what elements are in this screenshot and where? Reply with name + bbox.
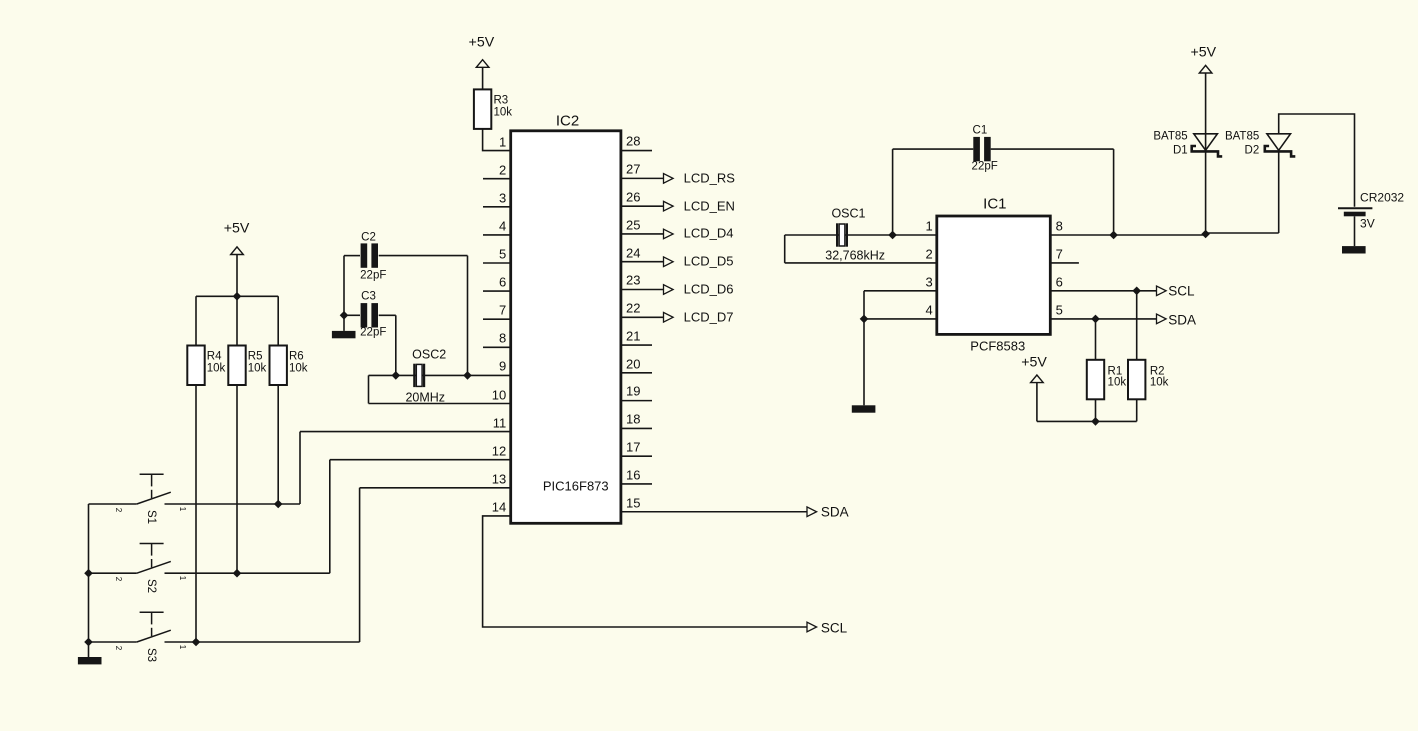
wire IC2 pin 17 stub — [621, 455, 652, 457]
pin number 14 IC2 — [492, 500, 506, 513]
arrow SCL IC1 — [1157, 286, 1167, 296]
junction C2-OSC2 — [463, 371, 472, 380]
resistor R6 — [270, 346, 287, 386]
pin number 24 IC2 — [626, 246, 640, 259]
net label SCL — [821, 621, 847, 635]
pin number 3 IC1 — [926, 275, 933, 288]
label D2 — [1245, 145, 1260, 157]
wire C1 left — [893, 148, 974, 150]
junction R1-SDA — [1091, 315, 1100, 324]
pin number 10 IC2 — [492, 388, 506, 401]
label +5V D1 — [1190, 45, 1216, 59]
pin number 23 IC2 — [626, 274, 640, 287]
pin number 3 IC2 — [499, 191, 506, 204]
wire OSC1 net pin 1 — [785, 234, 937, 236]
crystal OSC2 — [414, 364, 424, 387]
capacitor C1 — [973, 137, 990, 161]
wire IC2 pin 5 stub — [483, 262, 510, 264]
diode D2 BAT85 — [1265, 134, 1296, 157]
wire IC2 pin 21 stub — [621, 344, 652, 346]
junction +5V rail — [233, 292, 242, 301]
arrow pin 23 — [664, 285, 674, 295]
label +5V pullups — [1021, 355, 1047, 369]
pin number 21 IC2 — [626, 329, 640, 342]
label S1 — [144, 510, 156, 524]
wire pin 13 — [360, 487, 510, 489]
wire C1 right riser — [1113, 149, 1115, 235]
wire pin 5 SDA — [1050, 318, 1156, 320]
wire C3 riser to pin9 node — [395, 315, 397, 375]
wire C3 right to riser — [379, 314, 396, 316]
wire pin 4 — [864, 318, 937, 320]
net label SCL IC1 — [1168, 285, 1194, 299]
wire S2 riser to pin 12 — [329, 460, 331, 574]
label CR2032 — [1360, 191, 1404, 203]
capacitor C2 — [361, 243, 378, 267]
label C1 value — [972, 161, 998, 173]
net label LCD_D5 — [684, 254, 734, 267]
label +5V R4R6 — [224, 222, 250, 236]
arrow SCL — [807, 622, 817, 632]
wire +5V through R3 to IC2 pin 1 — [483, 67, 510, 150]
pin number 8 IC1 — [1056, 219, 1063, 232]
arrow pin 22 — [664, 312, 674, 322]
junction pin3-pin4-gnd — [860, 315, 869, 324]
wire IC1 pin 7 stub — [1050, 262, 1079, 264]
net label LCD_D6 — [684, 282, 734, 295]
wire +5V drop — [236, 255, 238, 297]
wire IC2 pin 20 stub — [621, 372, 652, 374]
wire IC2 pin 7 stub — [483, 318, 510, 320]
wire R5 column — [236, 296, 238, 573]
junction D1-pin8 — [1201, 230, 1210, 239]
wire pin 8 net right part — [1206, 232, 1279, 234]
resistor R1 — [1087, 360, 1104, 400]
wire IC2 pin 18 stub — [621, 427, 652, 429]
pin number 8 IC2 — [499, 332, 506, 345]
junction bus-S3 — [84, 638, 93, 647]
pin number 19 IC2 — [626, 385, 640, 398]
label R3 — [493, 95, 508, 107]
arrow pin 25 — [664, 229, 674, 239]
wire OSC2 net pin 9 — [369, 374, 511, 376]
power +5V above pullup rail — [1031, 375, 1044, 383]
junction C1-pin8 — [1109, 231, 1118, 240]
power +5V above D1 — [1199, 65, 1212, 73]
label OSC2 — [412, 348, 446, 361]
pin number 2 IC1 — [926, 247, 933, 260]
wire pin 8 net — [1050, 234, 1205, 236]
wire +5V pullup rail — [1037, 420, 1137, 422]
label battery 3V — [1360, 217, 1375, 229]
wire +5V to D1 — [1205, 73, 1207, 151]
label C2 value — [360, 270, 386, 282]
label C2 — [361, 232, 376, 244]
junction R2-SCL — [1132, 287, 1141, 296]
wire C2 riser to pin9 node — [467, 256, 469, 376]
power +5V above R4-R6 — [231, 247, 244, 255]
pin number 11 IC2 — [493, 416, 507, 429]
wire C2-C3 left link — [343, 256, 345, 316]
pin label 1 of S3 — [178, 645, 186, 649]
wire IC2 pin 24 to arrow — [621, 261, 664, 263]
pin number 12 IC2 — [492, 444, 506, 457]
pin number 17 IC2 — [626, 440, 640, 453]
junction R5-S2 — [233, 569, 242, 578]
label R1 — [1108, 366, 1123, 378]
pin number 1 IC2 — [499, 135, 506, 148]
resistor R4 — [187, 346, 204, 386]
wire pin8 net to D2 — [1278, 151, 1280, 233]
pin number 2 IC2 — [499, 163, 506, 176]
net label LCD_EN — [684, 199, 735, 212]
pin number 25 IC2 — [626, 218, 640, 231]
wire S1 riser to pin 11 — [299, 432, 301, 504]
wire pin9-pin10 link — [368, 375, 370, 403]
wire switch ground bus — [88, 504, 90, 657]
wire IC1 ground stem — [863, 319, 865, 405]
label OSC1 — [831, 207, 865, 220]
wire IC2 pin 2 stub — [483, 178, 510, 180]
wire IC2 pin 4 stub — [483, 234, 510, 236]
label R4 — [207, 352, 222, 364]
wire R6 column — [277, 296, 279, 504]
wire S3 riser to pin 13 — [359, 488, 361, 642]
wire D1 to pin8 net — [1205, 150, 1207, 235]
pin number 5 IC2 — [499, 247, 506, 260]
label C1 — [973, 125, 988, 137]
crystal OSC1 — [837, 223, 847, 246]
junction C3-OSC2 — [392, 371, 401, 380]
label PIC16F873 — [543, 479, 609, 492]
wire IC2 pin 26 to arrow — [621, 205, 664, 207]
net label LCD_RS — [684, 171, 735, 184]
ground below switches — [78, 657, 102, 664]
label R6 value — [289, 363, 308, 375]
wire pin 12 — [330, 459, 510, 461]
arrow pin 26 — [664, 201, 674, 211]
label BAT85 D1 — [1153, 131, 1187, 143]
label R3 value — [493, 107, 512, 119]
wire C2 left — [344, 255, 360, 257]
wire IC2 pin 16 stub — [621, 483, 652, 485]
label +5V R3 — [469, 35, 495, 49]
junction bus-S2 — [84, 569, 93, 578]
resistor R5 — [228, 346, 245, 386]
wire C3 ground stem — [343, 315, 345, 331]
junction C3 left — [340, 311, 349, 320]
label BAT85 D2 — [1225, 131, 1259, 143]
resistor R2 — [1128, 360, 1145, 400]
label R1 value — [1108, 377, 1127, 389]
wire +5V rail — [196, 295, 278, 297]
pin number 1 IC1 — [926, 219, 933, 232]
switch S1 — [89, 474, 301, 504]
IC IC2 PIC16F873 body — [511, 131, 621, 524]
label R4 value — [207, 363, 226, 375]
battery CR2032 plates — [1338, 208, 1372, 216]
wire IC2 pin 6 stub — [483, 290, 510, 292]
wire IC2 pin 14 to SCL net — [483, 516, 807, 627]
pin number 6 IC1 — [1056, 275, 1063, 288]
wire IC2 pin 3 stub — [483, 206, 510, 208]
wire IC2 pin 23 to arrow — [621, 289, 664, 291]
wire OSC1 left loop — [784, 235, 786, 263]
wire IC2 pin 8 stub — [483, 346, 510, 348]
net label LCD_D7 — [684, 310, 734, 323]
wire IC2 pin 15 SDA net — [621, 511, 807, 513]
junction R4-S3 — [192, 638, 201, 647]
label D1 — [1173, 145, 1188, 157]
arrow SDA — [807, 507, 817, 517]
pin label 2 of S1 — [114, 507, 122, 511]
pin number 4 IC1 — [926, 303, 933, 316]
wire pin 2 — [785, 262, 937, 264]
pin number 26 IC2 — [626, 190, 640, 203]
wire C2 right to riser — [379, 255, 468, 257]
pin label 1 of S1 — [178, 507, 186, 511]
net label LCD_D4 — [684, 227, 734, 240]
wire IC2 pin 19 stub — [621, 400, 652, 402]
label R6 — [289, 352, 304, 364]
wire battery to ground — [1354, 216, 1356, 246]
pin label 2 of S3 — [114, 645, 122, 649]
resistor R3 — [474, 89, 491, 128]
wire IC2 pin 28 stub — [621, 150, 652, 152]
pin number 28 IC2 — [626, 135, 640, 148]
wire pin 3 — [864, 290, 937, 292]
label S3 — [144, 648, 156, 662]
ground battery — [1342, 246, 1366, 253]
pin number 7 IC1 — [1056, 247, 1063, 260]
junction R6-S1 — [274, 500, 283, 509]
pin number 27 IC2 — [626, 162, 640, 175]
wire R2 column — [1136, 291, 1138, 422]
wire C1 left riser — [892, 149, 894, 235]
wire +5V pullup drop — [1036, 383, 1038, 422]
pin number 5 IC1 — [1056, 303, 1063, 316]
pin number 16 IC2 — [626, 468, 640, 481]
label OSC1 value — [825, 249, 885, 262]
pin label 2 of S2 — [114, 576, 122, 580]
pin number 9 IC2 — [499, 360, 506, 373]
wire pin3-pin4 link — [863, 291, 865, 319]
pin label 1 of S2 — [178, 576, 186, 580]
IC IC1 PCF8583 body — [937, 216, 1051, 334]
label R5 — [248, 352, 263, 364]
ground below C3 — [332, 331, 356, 338]
power +5V above R3 — [476, 60, 489, 68]
pin number 7 IC2 — [499, 303, 506, 316]
pin number 18 IC2 — [626, 412, 640, 425]
pin number 4 IC2 — [499, 219, 506, 232]
wire R1 column — [1095, 319, 1097, 422]
wire D2 to battery — [1279, 114, 1355, 207]
label OSC2 value — [405, 391, 445, 404]
switch S2 — [89, 544, 330, 574]
wire IC2 pin 27 to arrow — [621, 177, 664, 179]
label IC2 — [556, 113, 579, 128]
label IC1 — [983, 196, 1006, 211]
wire R4 column — [195, 296, 197, 642]
wire C3 left — [344, 314, 360, 316]
pin number 20 IC2 — [626, 357, 640, 370]
arrow pin 27 — [664, 174, 674, 184]
pin number 15 IC2 — [626, 496, 640, 509]
wire pin 10 — [369, 403, 511, 405]
label C3 value — [360, 328, 386, 340]
capacitor C3 — [361, 303, 378, 327]
wire pin 6 SCL — [1050, 290, 1156, 292]
label C3 — [361, 291, 376, 303]
wire IC2 pin 25 to arrow — [621, 233, 664, 235]
net label SDA — [821, 506, 849, 520]
pin number 6 IC2 — [499, 275, 506, 288]
label R2 value — [1150, 377, 1169, 389]
switch S3 — [89, 612, 360, 642]
pin number 13 IC2 — [492, 472, 506, 485]
wire C1 right — [991, 148, 1114, 150]
arrow SDA IC1 — [1157, 314, 1167, 324]
label PCF8583 — [970, 339, 1025, 352]
net label SDA IC1 — [1168, 313, 1196, 327]
diode D1 BAT85 — [1192, 134, 1223, 157]
junction OSC1-C1 — [888, 231, 897, 240]
arrow pin 24 — [664, 257, 674, 267]
label R2 — [1150, 366, 1165, 378]
junction R1-rail — [1091, 417, 1100, 426]
wire pin 11 — [300, 431, 510, 433]
label S2 — [144, 579, 156, 593]
pin number 22 IC2 — [626, 301, 640, 314]
label R5 value — [248, 363, 267, 375]
ground IC1 — [852, 405, 876, 412]
wire IC2 pin 22 to arrow — [621, 316, 664, 318]
